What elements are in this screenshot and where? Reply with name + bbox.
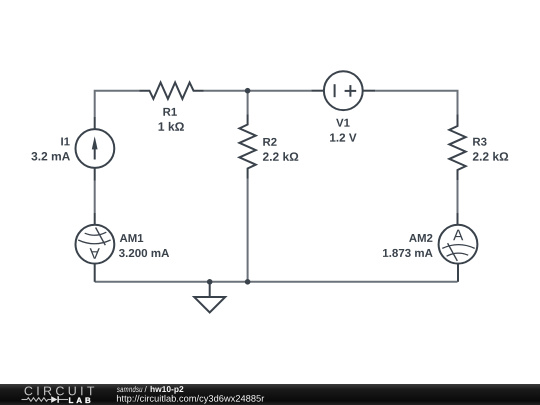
label R3 value — [473, 138, 508, 161]
node junction R2 bottom — [245, 279, 251, 285]
wire node to R2 — [247, 91, 249, 115]
logo diode — [51, 396, 59, 403]
footer title line — [117, 386, 183, 394]
wire R3 to AM2 — [457, 180, 459, 213]
node junction ground — [207, 279, 213, 285]
node junction top (R1/R2/V1) — [245, 88, 251, 94]
logo wire and resistor zigzag — [22, 398, 69, 402]
wire left column corner — [95, 91, 140, 117]
resistor R1 with leads — [140, 83, 204, 99]
label V1 value — [330, 119, 356, 142]
resistor R2 with leads — [239, 115, 255, 179]
label AM1 value — [119, 234, 169, 257]
ground — [194, 282, 225, 313]
label R1 value — [159, 108, 184, 131]
label I1 value — [31, 138, 70, 161]
resistor R3 with leads — [449, 115, 465, 181]
wire V1 to top-right corner — [375, 91, 457, 115]
voltage source V1 with leads — [311, 71, 375, 110]
label R2 value — [263, 138, 298, 161]
ammeter AM2 with leads — [439, 213, 478, 282]
ammeter AM1 (rotated 180) — [76, 225, 115, 264]
current source I1 with leads — [76, 117, 115, 181]
wire bottom row — [95, 281, 458, 283]
wire I1 to AM1 — [94, 181, 96, 214]
logo LAB text — [69, 398, 90, 404]
logo CIRCUIT text — [25, 386, 95, 395]
wire R2 to bottom node — [247, 179, 249, 282]
label AM2 value — [383, 234, 433, 257]
footer url line — [117, 395, 264, 404]
ammeter AM1 leads — [94, 213, 96, 225]
wire R1 to V1 — [204, 90, 312, 92]
